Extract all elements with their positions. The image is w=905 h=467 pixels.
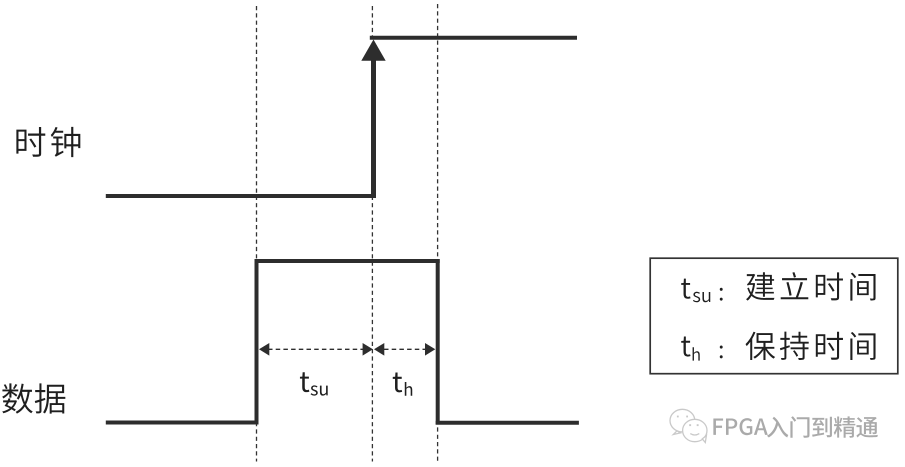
th value label bbox=[393, 373, 412, 396]
clock rising-edge arrowhead bbox=[361, 40, 385, 61]
data rising-edge wire bbox=[255, 259, 259, 425]
legend box frame bbox=[650, 258, 898, 374]
th dimension arrow (hold time span) bbox=[374, 343, 435, 356]
data high-level wire segment bbox=[255, 259, 440, 263]
dashed guide line at clock edge bbox=[371, 6, 373, 462]
watermark wechat logo bbox=[670, 409, 707, 442]
dashed guide line at data rising edge (setup start) bbox=[256, 6, 258, 462]
legend line 2: th = hold time (保持时间) bbox=[681, 332, 875, 361]
data falling-edge wire bbox=[436, 259, 440, 425]
legend line 1: tsu = setup time (建立时间) bbox=[681, 272, 875, 302]
label 时钟 (clock) bbox=[16, 127, 80, 157]
clock rising-edge wire (arrow shaft) bbox=[371, 55, 376, 198]
tsu dimension arrow (setup time span) bbox=[259, 343, 373, 356]
dashed guide line at data falling edge (hold end) bbox=[437, 4, 439, 462]
watermark text FPGA入门到精通 bbox=[713, 416, 878, 437]
tsu value label bbox=[300, 372, 328, 395]
label 数据 (data) bbox=[2, 383, 65, 413]
clock low-level wire segment bbox=[106, 194, 376, 198]
clock high-level wire segment bbox=[370, 36, 577, 40]
data low-level left wire segment bbox=[106, 421, 259, 425]
data low-level right wire segment bbox=[436, 421, 579, 425]
